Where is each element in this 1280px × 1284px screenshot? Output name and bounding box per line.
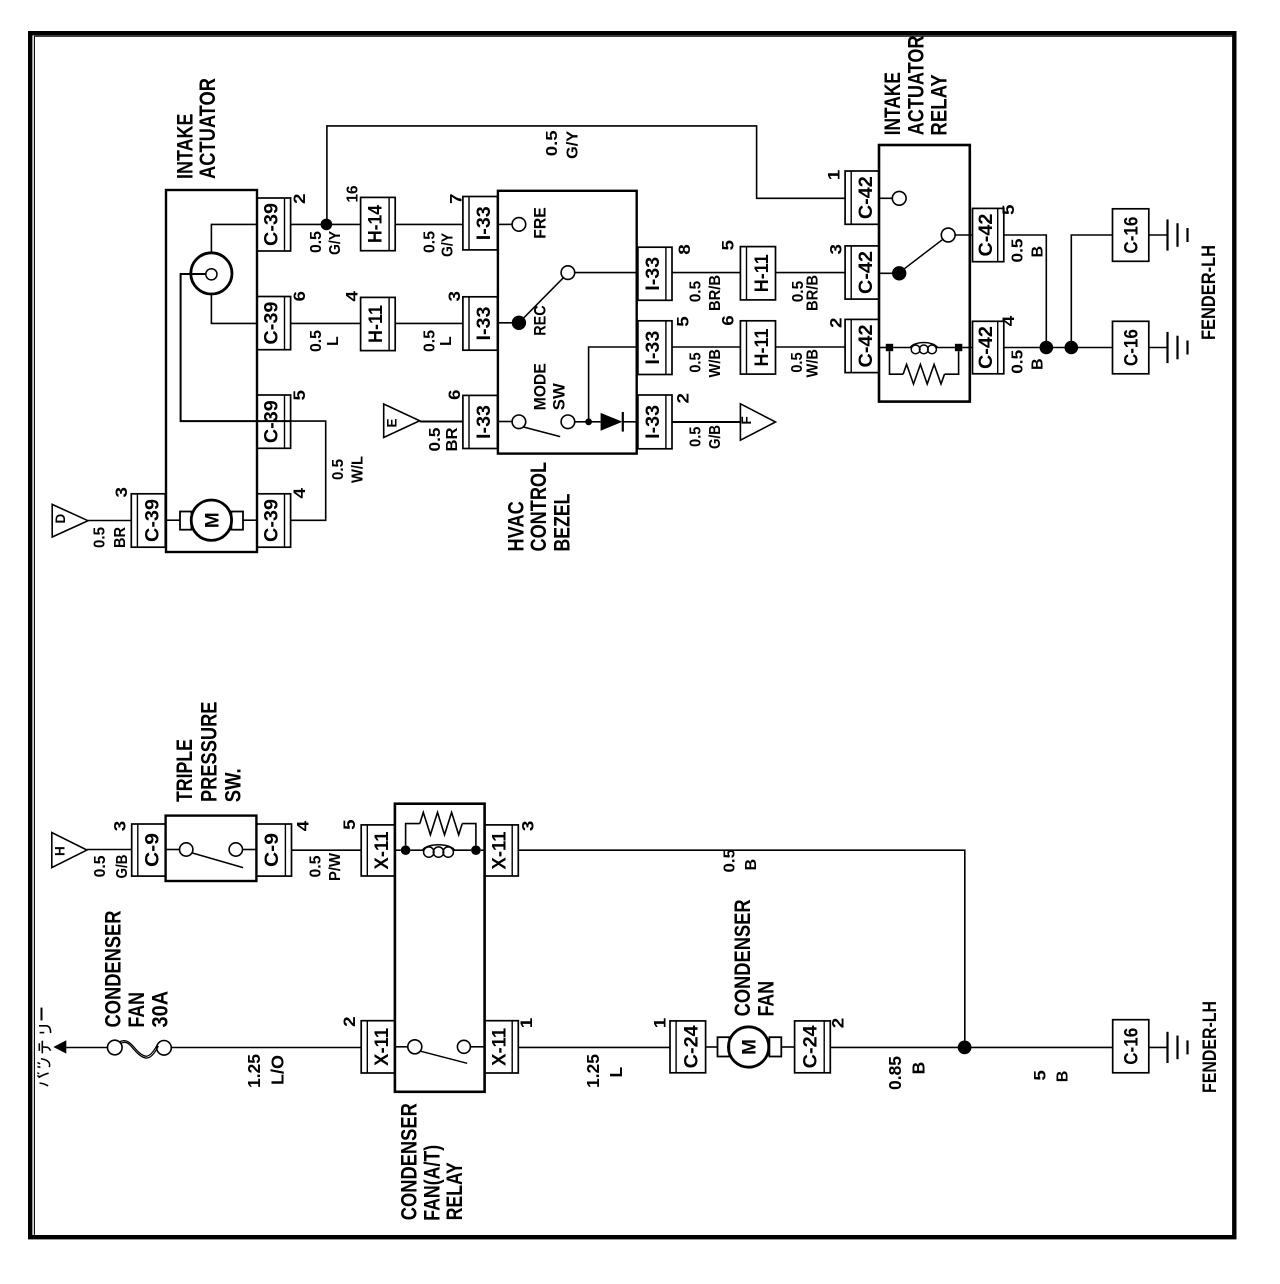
wire fuse to X-11 pin2	[171, 1047, 361, 1049]
svg-text:L: L	[606, 1067, 626, 1078]
svg-text:1.25: 1.25	[244, 1054, 264, 1088]
connector C-42 pin 2	[845, 319, 879, 372]
svg-text:C-39: C-39	[262, 302, 283, 345]
svg-text:I-33: I-33	[474, 307, 495, 341]
svg-text:X-11: X-11	[489, 831, 510, 869]
svg-text:2: 2	[830, 1018, 848, 1029]
svg-text:6: 6	[291, 291, 309, 302]
intake actuator relay box	[879, 145, 970, 402]
wire I-33 pin8 to H-11 pin5	[672, 272, 740, 274]
intake actuator box	[166, 190, 257, 552]
svg-text:0.5: 0.5	[544, 130, 561, 156]
wire H-14 to I-33 pin7	[395, 223, 463, 225]
connector I-33 pin 2	[638, 395, 672, 449]
svg-text:C-9: C-9	[262, 833, 283, 867]
svg-text:G/B: G/B	[114, 855, 131, 879]
svg-text:2: 2	[341, 1016, 359, 1027]
wire C-16 lower to ground	[1149, 347, 1168, 349]
svg-text:CONDENSER: CONDENSER	[730, 899, 755, 1016]
wire H-11 pin6 to C-42 pin2	[776, 346, 846, 348]
svg-text:5: 5	[291, 390, 309, 401]
svg-text:G/Y: G/Y	[439, 233, 456, 257]
svg-text:C-39: C-39	[142, 499, 163, 542]
svg-text:0.5: 0.5	[421, 231, 438, 253]
svg-text:4: 4	[1000, 315, 1018, 326]
svg-text:0.5: 0.5	[1010, 350, 1027, 374]
svg-text:C-24: C-24	[800, 1025, 821, 1068]
relay coil junction right	[955, 344, 962, 351]
wire C-39 pin6 to sensor	[211, 294, 257, 323]
wire E to I-33 pin6	[420, 421, 463, 423]
svg-text:5: 5	[1032, 1070, 1050, 1081]
svg-text:RELAY: RELAY	[442, 1162, 467, 1220]
connector C-16 upper	[1113, 209, 1149, 261]
svg-text:2: 2	[675, 393, 693, 404]
svg-text:0.5: 0.5	[427, 427, 444, 451]
svg-text:SW: SW	[550, 382, 569, 410]
svg-text:3: 3	[828, 244, 846, 255]
svg-text:D: D	[53, 514, 68, 524]
svg-text:C-16: C-16	[1122, 217, 1143, 254]
svg-text:0.5: 0.5	[721, 849, 738, 873]
svg-text:4: 4	[291, 487, 309, 498]
svg-text:F: F	[739, 416, 754, 424]
connector I-33 pin 3	[463, 297, 498, 350]
connector C-24 pin 2	[795, 1021, 831, 1073]
connector X-11 pin 3	[485, 825, 519, 876]
svg-text:16: 16	[345, 185, 362, 202]
wire C-39 pin2 to sensor	[211, 224, 257, 252]
connector H-11 pin 4	[361, 297, 396, 350]
connector I-33 pin 8	[638, 247, 672, 300]
svg-text:FAN: FAN	[753, 981, 778, 1016]
relay coil L1	[893, 347, 911, 349]
svg-text:E: E	[385, 418, 400, 427]
svg-text:6: 6	[446, 390, 464, 401]
svg-text:0.5: 0.5	[308, 231, 325, 253]
wire junction to H-14	[327, 223, 361, 225]
svg-text:3: 3	[113, 487, 131, 498]
connector C-9 pin 4	[256, 824, 291, 876]
svg-text:H: H	[53, 846, 68, 856]
wire relay arm to C-42 pin5	[955, 234, 972, 236]
svg-text:CONDENSER: CONDENSER	[101, 910, 126, 1027]
condenser fan motor M	[728, 1027, 768, 1067]
wire loop pin5 to pin4	[291, 421, 326, 520]
relay arm	[901, 239, 944, 271]
svg-text:C-16: C-16	[1122, 329, 1143, 366]
svg-text:B: B	[1030, 358, 1047, 370]
relay resistor R1	[890, 351, 904, 374]
svg-text:B: B	[908, 1062, 928, 1075]
wire X-11 pin1 to C-24 pin1	[518, 1046, 670, 1048]
connector C-42 pin 4	[973, 321, 1004, 374]
svg-text:C-39: C-39	[262, 203, 283, 246]
svg-text:BR: BR	[112, 527, 129, 548]
svg-text:CONDENSER: CONDENSER	[397, 1103, 422, 1220]
svg-text:FAN: FAN	[124, 992, 149, 1027]
wire C-24 pin2 to C-16	[830, 1046, 1112, 1048]
junction node diode	[585, 418, 592, 425]
svg-text:P/W: P/W	[327, 852, 344, 881]
svg-text:0.5: 0.5	[687, 426, 704, 447]
HVAC control bezel box	[498, 191, 637, 454]
svg-text:C-42: C-42	[856, 251, 877, 294]
svg-text:7: 7	[448, 194, 466, 205]
svg-text:4: 4	[294, 820, 312, 831]
svg-text:0.5: 0.5	[789, 352, 806, 373]
svg-text:5: 5	[720, 240, 738, 251]
relay common contact	[879, 272, 899, 274]
relay contact pin1	[879, 197, 892, 199]
svg-text:I-33: I-33	[474, 405, 495, 439]
svg-text:H-14: H-14	[366, 205, 387, 243]
connector C-39 pin 4	[257, 494, 291, 547]
svg-text:C-16: C-16	[1122, 1028, 1143, 1065]
svg-text:REC: REC	[530, 305, 549, 336]
MODE SW contact right	[561, 415, 575, 429]
svg-text:C-39: C-39	[262, 400, 283, 443]
relay coil junction left	[886, 344, 893, 351]
svg-text:C-42: C-42	[856, 325, 877, 368]
connector H-11 pin 5	[740, 247, 775, 300]
svg-text:0.5: 0.5	[92, 527, 109, 548]
REC contact	[498, 322, 514, 324]
svg-text:BR/B: BR/B	[707, 275, 724, 311]
wire X-11 pin3 to junction	[518, 850, 965, 1040]
connector C-9 pin 3	[132, 824, 166, 876]
wire H-11 to I-33 pin3	[395, 322, 463, 324]
svg-text:I-33: I-33	[643, 257, 664, 291]
svg-text:C-42: C-42	[976, 326, 997, 369]
wire C-42 pin4 to ground C-16	[1004, 347, 1113, 349]
diode D1	[589, 421, 601, 423]
wire to diode node	[575, 421, 586, 423]
svg-text:ACTUATOR: ACTUATOR	[195, 78, 220, 179]
position sensor circle	[191, 253, 232, 294]
svg-text:W/B: W/B	[805, 349, 822, 378]
page link triangle D	[52, 504, 88, 537]
svg-text:1: 1	[826, 170, 844, 181]
svg-text:C-39: C-39	[262, 499, 283, 542]
condenser fan relay box	[395, 804, 485, 1092]
connector C-39 pin 6	[257, 297, 291, 350]
svg-text:0.5: 0.5	[308, 330, 325, 352]
svg-text:2: 2	[828, 318, 846, 329]
svg-text:FAN(A/T): FAN(A/T)	[419, 1145, 444, 1221]
connector I-33 pin 5	[638, 321, 672, 375]
connector C-24 pin 1	[670, 1021, 706, 1073]
svg-text:BR/B: BR/B	[805, 275, 822, 311]
svg-text:3: 3	[112, 821, 130, 832]
svg-text:I-33: I-33	[474, 206, 495, 240]
relay switch contacts	[395, 1046, 408, 1048]
svg-text:G/B: G/B	[707, 425, 724, 449]
svg-text:M: M	[740, 1039, 761, 1055]
junction node G/Y	[321, 219, 333, 231]
svg-text:L: L	[438, 336, 455, 346]
svg-text:X-11: X-11	[372, 1027, 393, 1065]
svg-text:C-9: C-9	[143, 833, 164, 867]
connector X-11 pin 1	[485, 1021, 519, 1073]
svg-text:HVAC: HVAC	[504, 501, 529, 551]
svg-text:X-11: X-11	[489, 1027, 510, 1065]
connector I-33 pin 6	[463, 395, 498, 448]
triple pressure switch box	[166, 816, 257, 881]
svg-text:B: B	[743, 859, 760, 871]
motor M of intake actuator	[191, 500, 231, 540]
svg-text:L/O: L/O	[268, 1055, 288, 1085]
svg-text:FRE: FRE	[530, 207, 549, 239]
wire selector to I-33 pin8	[575, 272, 638, 274]
svg-text:6: 6	[720, 315, 738, 326]
svg-text:M: M	[202, 512, 223, 528]
svg-text:C-42: C-42	[856, 176, 877, 219]
MODE SW contact left	[498, 421, 512, 423]
svg-text:4: 4	[344, 290, 362, 301]
svg-text:PRESSURE: PRESSURE	[196, 702, 221, 803]
MODE SW arm	[524, 427, 561, 437]
svg-text:W/B: W/B	[707, 349, 724, 378]
svg-text:H-11: H-11	[366, 305, 387, 343]
connector C-42 pin 3	[845, 246, 879, 299]
connector C-16 lower	[1113, 321, 1149, 374]
wire junction up and right to C-42 pin1	[327, 126, 845, 224]
svg-text:H-11: H-11	[752, 254, 773, 292]
svg-text:5: 5	[675, 316, 693, 327]
wire coil to C-42 pin4	[962, 347, 972, 349]
svg-text:2: 2	[291, 194, 309, 205]
ground lower FENDER-LH	[1166, 332, 1168, 363]
junction node ground net	[958, 1041, 972, 1055]
fuse CONDENSER FAN 30A	[108, 1040, 123, 1055]
connector C-42 pin 1	[845, 171, 879, 224]
relay coil wire	[879, 347, 886, 349]
svg-text:8: 8	[676, 244, 694, 255]
svg-text:3: 3	[446, 291, 464, 302]
svg-text:1: 1	[518, 1018, 536, 1029]
wire node up to pin5 row	[589, 347, 638, 422]
svg-text:INTAKE: INTAKE	[880, 72, 905, 135]
svg-text:0.5: 0.5	[421, 330, 438, 352]
svg-text:RELAY: RELAY	[927, 74, 952, 136]
wire H to C-9 pin3	[87, 849, 132, 851]
svg-text:C-42: C-42	[976, 214, 997, 257]
svg-text:1.25: 1.25	[583, 1054, 603, 1088]
svg-text:0.5: 0.5	[330, 459, 347, 480]
relay coil junction right dot	[471, 845, 481, 855]
wire battery to fuse	[66, 1047, 107, 1049]
svg-text:I-33: I-33	[643, 331, 664, 365]
svg-text:MODE: MODE	[530, 363, 549, 410]
wire C-9 pin4 to X-11 pin5	[292, 849, 362, 851]
connector C-39 pin 5	[257, 395, 291, 448]
svg-text:0.5: 0.5	[92, 855, 109, 877]
selector arm REC	[521, 277, 564, 321]
wire I-33 pin5 to H-11 pin6	[672, 346, 740, 348]
connector X-11 pin 5	[361, 825, 395, 876]
connector C-16 bottom	[1113, 1020, 1149, 1073]
wire sensor wiper to C-39 pin5	[181, 274, 291, 421]
wire D to C-39 pin3	[88, 520, 131, 522]
svg-text:5: 5	[341, 819, 359, 830]
pressure switch contacts	[166, 849, 180, 851]
wire C-16 upper to ground	[1149, 234, 1168, 236]
wire C-39 pin2 to junction	[291, 223, 327, 225]
svg-text:W/L: W/L	[350, 456, 367, 483]
svg-text:0.85: 0.85	[885, 1056, 905, 1090]
svg-text:FENDER-LH: FENDER-LH	[1199, 245, 1220, 340]
svg-text:5: 5	[1000, 204, 1018, 215]
FRE contact	[498, 223, 512, 225]
page link triangle F	[740, 404, 775, 440]
wire I-33 pin2 to F	[672, 421, 740, 423]
connector I-33 pin 7	[463, 197, 498, 250]
ground upper FENDER-LH	[1166, 219, 1168, 250]
connector H-14 pin 16	[361, 197, 396, 250]
connector C-42 pin 5	[973, 208, 1004, 261]
connector H-11 pin 6	[740, 321, 775, 374]
svg-text:B: B	[1030, 246, 1047, 258]
page link triangle H	[52, 833, 87, 868]
svg-text:ACTUATOR: ACTUATOR	[903, 35, 928, 135]
wire C-39 pin6 to H-11	[291, 322, 361, 324]
connector C-39 pin 2	[257, 198, 291, 251]
svg-text:INTAKE: INTAKE	[173, 113, 198, 179]
relay coil L2	[395, 849, 401, 851]
ground bottom FENDER-LH	[1166, 1032, 1168, 1063]
wire C-16 bottom to ground	[1149, 1046, 1168, 1048]
svg-text:TRIPLE: TRIPLE	[172, 739, 197, 802]
relay coil junction left dot	[401, 845, 411, 855]
wire H-11 pin5 to C-42 pin3	[776, 272, 846, 274]
svg-text:0.5: 0.5	[687, 352, 704, 373]
wire junction B2 to top C-16	[1071, 235, 1112, 348]
svg-text:G/Y: G/Y	[565, 131, 582, 159]
svg-text:I-33: I-33	[643, 405, 664, 439]
junction node B2	[1065, 341, 1079, 355]
svg-text:H-11: H-11	[752, 328, 773, 366]
relay resistor R2	[406, 824, 420, 846]
page link triangle E	[384, 404, 420, 438]
label battery (katakana)	[41, 1008, 43, 1021]
svg-text:FENDER-LH: FENDER-LH	[1200, 1001, 1221, 1093]
svg-text:30A: 30A	[147, 991, 172, 1028]
connector X-11 pin 2	[361, 1021, 395, 1073]
svg-text:0.5: 0.5	[1010, 238, 1027, 262]
svg-text:B: B	[1055, 1071, 1072, 1083]
svg-text:CONTROL: CONTROL	[526, 462, 551, 552]
svg-text:C-24: C-24	[682, 1025, 703, 1068]
junction node B1	[1040, 341, 1054, 355]
svg-text:3: 3	[519, 821, 537, 832]
svg-text:L: L	[325, 336, 342, 346]
svg-text:SW.: SW.	[221, 768, 246, 802]
svg-text:BR: BR	[444, 427, 461, 451]
svg-text:BEZEL: BEZEL	[549, 494, 574, 552]
wire C-42 pin5 to junction	[1004, 235, 1047, 348]
battery feed arrow	[53, 1040, 66, 1053]
svg-text:0.5: 0.5	[308, 855, 325, 877]
connector C-39 pin 3	[131, 494, 165, 547]
svg-text:X-11: X-11	[372, 831, 393, 869]
svg-text:0.5: 0.5	[687, 281, 704, 303]
svg-text:1: 1	[652, 1018, 670, 1029]
svg-text:G/Y: G/Y	[327, 231, 344, 255]
